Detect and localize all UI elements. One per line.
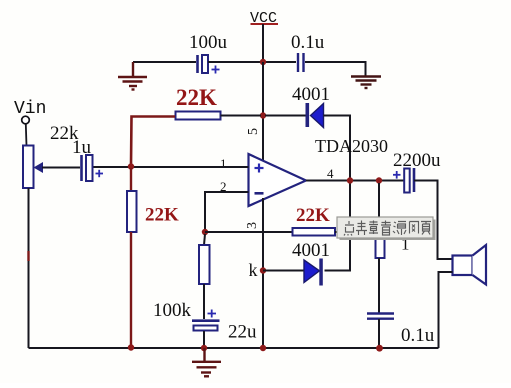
wire k node to diode D2: [263, 270, 304, 272]
capacitor C2 0.1u (top): [291, 32, 325, 72]
wire top rail mid: [208, 61, 296, 63]
wire op-amp pin 3 down: [262, 198, 264, 347]
junction bottom rail / pin3: [260, 345, 266, 351]
diode D1 4001 (top): [292, 84, 330, 128]
ground (top-left): [118, 62, 147, 90]
junction bottom rail / C5: [376, 345, 383, 352]
wire pin 2: [205, 192, 249, 230]
wire top rail left: [133, 61, 196, 63]
capacitor C6 22u: [192, 310, 257, 349]
svg-text:k: k: [249, 260, 258, 280]
wire input left drop: [28, 188, 30, 348]
wire bottom rail: [29, 347, 439, 349]
wire top rail right: [305, 62, 366, 76]
wire (dark red) input node to R1: [131, 117, 175, 166]
svg-text:TDA2030: TDA2030: [315, 136, 388, 156]
svg-text:100k: 100k: [153, 300, 192, 321]
svg-text:4001: 4001: [292, 84, 330, 105]
wire output pin 4: [306, 180, 404, 182]
wire speaker bottom: [439, 272, 453, 348]
wire diode D2 to output line: [325, 183, 351, 271]
op-amp U1 TDA2030: [249, 136, 389, 206]
svg-text:100u: 100u: [189, 32, 228, 53]
resistor R3 22K (feedback): [293, 205, 336, 236]
svg-text:1: 1: [220, 156, 227, 171]
svg-text:3: 3: [245, 222, 260, 229]
watermark overlay box: [337, 217, 436, 240]
svg-text:5: 5: [246, 128, 261, 135]
junction VCC node: [260, 59, 266, 65]
svg-text:22K: 22K: [145, 205, 179, 226]
wire diode D1 to output line: [324, 116, 351, 180]
ground (bottom): [192, 348, 221, 376]
wire maroon tick on left drop: [27, 251, 29, 261]
junction pin2 node: [202, 229, 208, 235]
svg-text:22u: 22u: [228, 322, 257, 343]
capacitor C3 1u: [50, 123, 103, 181]
svg-text:Vin: Vin: [14, 99, 46, 119]
wire VCC stub: [262, 24, 264, 62]
junction k node: [260, 267, 266, 273]
potentiometer VR1 22k: [23, 146, 80, 189]
junction input node: [128, 163, 134, 169]
svg-text:4: 4: [327, 166, 334, 181]
resistor R5 100k: [153, 234, 210, 321]
capacitor C1 100u: [189, 32, 228, 74]
ground (top-right): [351, 77, 381, 89]
svg-text:2: 2: [220, 179, 227, 194]
junction pin5 / diode node: [260, 112, 266, 118]
svg-text:4001: 4001: [292, 240, 330, 261]
capacitor C5 0.1u (bottom): [367, 314, 435, 349]
wire feedback to output line: [335, 231, 350, 233]
resistor R1 22K (top feedback): [176, 85, 221, 120]
junction bottom rail / ground: [201, 345, 207, 351]
wire VCC rail to op-amp pin 5: [262, 62, 264, 161]
wire R1 to VCC line: [221, 115, 262, 117]
capacitor C4 2200u: [393, 150, 441, 193]
svg-text:22K: 22K: [176, 85, 217, 110]
wire C4 to speaker top: [414, 181, 453, 260]
svg-text:0.1u: 0.1u: [401, 325, 435, 346]
svg-text:2200u: 2200u: [393, 150, 441, 171]
junction output node B: [376, 177, 382, 183]
junction output node A: [347, 177, 353, 183]
junction bottom rail / R2: [128, 344, 134, 350]
svg-text:22K: 22K: [296, 205, 330, 226]
svg-text:0.1u: 0.1u: [291, 32, 325, 53]
diode D2 4001 (bottom): [292, 240, 330, 286]
wire pin5 node to diode D1: [265, 115, 306, 117]
net VCC label: [250, 10, 278, 27]
terminal Vin: [14, 99, 46, 146]
wire pin 1 (input node to op-amp): [93, 166, 249, 168]
wire feedback row: [205, 231, 293, 233]
resistor R4 (output branch, top hidden by overlay): [376, 183, 385, 313]
speaker LS1: [453, 245, 487, 285]
resistor R2 22K (input shunt): [127, 168, 179, 347]
